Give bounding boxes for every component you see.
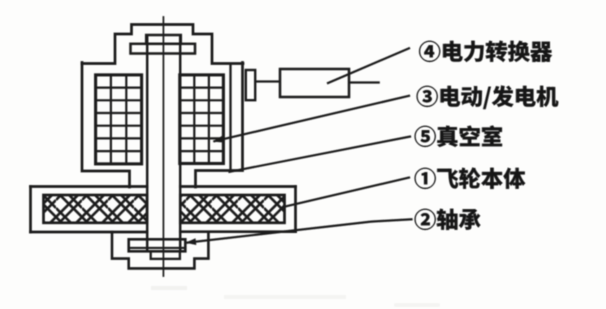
terminal tab on housing right wall bbox=[246, 70, 255, 100]
text label 3 diandong/fadianji (motor-generator): ③电动/发电机 bbox=[417, 86, 559, 109]
inner vacuum-chamber wall line (right) bbox=[229, 64, 231, 170]
flywheel housing left/right walls bbox=[31, 187, 296, 233]
leader line to label 1 (flywheel body) bbox=[286, 178, 409, 207]
shaft lower end cap box bbox=[151, 251, 180, 259]
arrowhead of leader 2 bbox=[186, 238, 197, 245]
bearing housing rect bbox=[129, 239, 186, 251]
power converter box U1 bbox=[280, 69, 349, 97]
text label 2 zhoucheng (bearing): ②轴承 bbox=[415, 209, 481, 230]
stepped pedestal under flywheel bbox=[112, 232, 208, 268]
shaft left edge bbox=[146, 36, 149, 251]
motor/generator winding block left bbox=[96, 75, 142, 164]
arrowhead of leader 3 bbox=[213, 136, 224, 143]
bearing inner line bbox=[130, 247, 185, 249]
housing left wall and bottom flange bbox=[82, 63, 130, 188]
shaft upper hub block bbox=[146, 35, 181, 44]
flywheel rotor (hatched) left half bbox=[44, 195, 148, 223]
leader line to label 2 (bearing) bbox=[188, 219, 412, 242]
flywheel rotor (hatched) right half bbox=[180, 195, 284, 223]
flywheel housing top edge bbox=[31, 185, 296, 188]
leader line to label 4 (power converter) bbox=[328, 48, 409, 83]
text label 1 feilun benti (flywheel body): ①飞轮本体 bbox=[415, 168, 526, 189]
text label 5 zhenkongshi (vacuum chamber): ⑤真空室 bbox=[415, 126, 502, 147]
leader line to label 3 (motor/generator) bbox=[215, 96, 410, 141]
leader line to label 5 (vacuum chamber) bbox=[230, 137, 411, 172]
wire tab to converter bbox=[255, 80, 280, 82]
faint scan smudge bottom right bbox=[396, 303, 438, 307]
housing right wall and bottom flange bbox=[196, 63, 243, 188]
wire from converter (right stub) bbox=[349, 81, 379, 83]
vacuum chamber housing stepped top outline bbox=[82, 25, 243, 64]
faint scan smudge bottom center bbox=[226, 295, 344, 299]
motor/generator winding block right bbox=[180, 75, 224, 164]
text label 4 dianli zhuanhuanqi (power converter): ④电力转换器 bbox=[419, 41, 552, 62]
shaft crossbar flange bbox=[131, 44, 196, 54]
shaft centerline (axis) bbox=[162, 17, 164, 276]
flywheel housing bottom edge bbox=[31, 230, 296, 233]
faint scan smudge bottom left bbox=[153, 286, 185, 290]
shaft right edge bbox=[179, 36, 182, 251]
